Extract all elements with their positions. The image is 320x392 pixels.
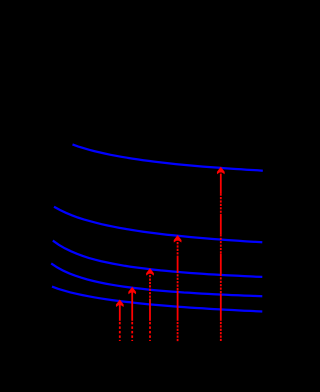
energy curve n=5 (lowest blue curve) xyxy=(52,287,262,312)
transition arrow 2 (to 4th curve) xyxy=(128,287,136,341)
energy curve n=4 xyxy=(51,263,262,296)
transition arrow 3 (to 3rd curve) xyxy=(146,268,154,341)
energy curve n=1 (top blue curve) xyxy=(73,144,263,170)
energy curve n=2 xyxy=(54,207,262,243)
transition arrow 1 (to lowest curve) xyxy=(116,300,124,342)
transition arrow 4 (to 2nd curve) xyxy=(174,235,182,342)
energy curve n=3 xyxy=(53,241,262,277)
transition arrow 5 (to top curve) xyxy=(217,167,225,341)
